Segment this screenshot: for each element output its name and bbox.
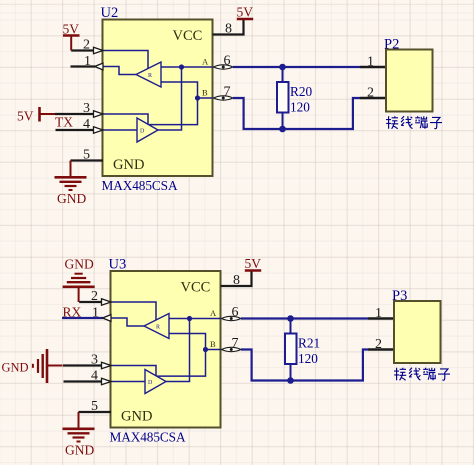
U3 part value label MAX485CSA — [110, 430, 186, 445]
U3 internal wire: pin4 to D input — [111, 381, 145, 383]
U3 internal wire: R input B / net B to pin 7 — [169, 334, 221, 350]
U3 pin 5 number — [91, 399, 98, 414]
svg-text:6: 6 — [232, 305, 239, 320]
svg-text:D: D — [148, 380, 153, 386]
svg-text:TX: TX — [55, 115, 73, 130]
U3 pin 2 (RE) with input arrow — [79, 299, 111, 305]
svg-text:7: 7 — [224, 85, 231, 100]
svg-text:5V: 5V — [63, 22, 80, 37]
svg-text:R20: R20 — [290, 84, 313, 99]
svg-text:8: 8 — [233, 273, 240, 288]
svg-text:VCC: VCC — [181, 280, 211, 296]
P3 pin 2 lead — [368, 348, 394, 350]
U2 pin name B (pin 7) — [202, 88, 208, 98]
power port 5V at U2 pin 3 — [17, 107, 55, 124]
svg-text:6: 6 — [224, 54, 231, 69]
svg-text:5: 5 — [91, 399, 98, 414]
wire R21 top lead — [290, 319, 292, 334]
U2 pin 6 (A) bidirectional pin symbol — [214, 65, 234, 69]
U3 pin 7 number — [232, 336, 239, 351]
U3 internal wire: D inverted output to net B — [157, 350, 206, 377]
U2 pin 4 (DI) with input arrow — [56, 127, 104, 133]
wire net A from pin6 to P2 — [233, 66, 360, 68]
svg-text:GND: GND — [57, 191, 86, 206]
U3 pin 2 number — [91, 289, 98, 304]
U2 internal junction on net B — [195, 95, 200, 100]
U3 pin 7 (B) bidirectional pin symbol — [222, 347, 242, 351]
connector P3 body — [394, 301, 441, 363]
svg-text:GND: GND — [65, 443, 94, 458]
resistor R21 120 — [285, 334, 297, 365]
svg-text:GND: GND — [2, 361, 29, 375]
U2 pin 1 (RO) with output arrow — [71, 63, 104, 70]
ground symbol GND above U3 pin 2 (inverted) — [63, 257, 95, 303]
svg-text:GND: GND — [113, 157, 144, 173]
U3 pin 4 (DI) with input arrow — [64, 378, 112, 384]
U2 pin 3 number — [83, 101, 90, 116]
U3 pin 3 number — [91, 353, 98, 368]
svg-text:1: 1 — [375, 306, 382, 321]
U2 internal wire: pin1 to R output — [103, 67, 136, 75]
U2 pin 6 number — [224, 54, 231, 69]
power port 5V at U3 pin 8 — [245, 256, 262, 271]
U3 pin name VCC — [181, 280, 211, 296]
U3 internal junction on net B — [203, 347, 208, 352]
driver buffer D inside U3 — [145, 370, 166, 394]
P2 value label (terminal block) — [386, 116, 442, 129]
U3 pin 6 (A) bidirectional pin symbol — [222, 316, 242, 320]
U2 internal wire: pin4 to D input — [103, 129, 137, 131]
U3 pin 8 (VCC) wire to 5V — [221, 271, 252, 286]
R21 designator label — [298, 336, 320, 351]
P3 pin 1 lead — [368, 317, 394, 319]
U3 pin 4 number — [91, 369, 98, 384]
U2 pin 7 (B) bidirectional pin symbol — [214, 96, 234, 100]
svg-text:5V: 5V — [245, 256, 262, 271]
svg-text:2: 2 — [367, 86, 374, 101]
ground symbol GND at U2 pin 5 — [55, 161, 87, 207]
svg-text:VCC: VCC — [173, 28, 203, 44]
U3 pin 5 (GND) wire — [79, 411, 112, 413]
U2 pin 2 number — [83, 38, 90, 53]
svg-text:P2: P2 — [384, 37, 399, 53]
U2 pin 7 number — [224, 85, 231, 100]
junction on net A at R21 top — [287, 315, 294, 322]
svg-text:GND: GND — [65, 257, 94, 272]
svg-text:120: 120 — [290, 100, 310, 115]
R20 value label 120 — [290, 100, 310, 115]
P3 value label (terminal block) — [394, 368, 450, 381]
wire R20 top lead — [282, 67, 284, 82]
junction on net B at R21 bottom — [287, 377, 294, 384]
ground symbol GND left of U3 pin 3 (rotated) — [2, 349, 63, 383]
wire net B from pin7 to P3 — [241, 350, 368, 381]
U2 pin 8 (VCC) wire to 5V — [213, 20, 244, 35]
P2 pin 1 lead — [360, 66, 386, 68]
junction on net B at R20 bottom — [279, 126, 286, 133]
P2 designator label — [384, 37, 399, 53]
U2 internal wire: pin2 enable to R — [103, 51, 148, 69]
svg-text:3: 3 — [83, 101, 90, 116]
wire net B from pin7 to P2 — [233, 98, 360, 129]
svg-text:D: D — [140, 129, 145, 135]
svg-text:1: 1 — [84, 54, 91, 69]
U3 internal wire: D output to net A — [166, 319, 190, 382]
U3 pin name A (pin 6) — [210, 308, 217, 318]
IC U3 body MAX485CSA — [111, 271, 221, 428]
U2 pin 5 number — [83, 148, 90, 163]
svg-text:R21: R21 — [298, 336, 320, 351]
svg-text:5V: 5V — [237, 5, 254, 20]
svg-text:8: 8 — [225, 22, 232, 37]
P2 pin 2 lead — [360, 97, 386, 99]
U2 internal wire: D output to net A — [158, 67, 182, 130]
U2 pin 4 number — [83, 117, 90, 132]
net label RX on U3 pin 1 — [63, 305, 82, 320]
receiver buffer R inside U2 — [136, 62, 161, 87]
svg-text:U3: U3 — [109, 257, 127, 273]
svg-text:A: A — [210, 308, 217, 318]
U2 internal wire: R input B / net B to pin 7 — [161, 82, 213, 98]
U2 pin name VCC — [173, 28, 203, 44]
wire net A from pin6 to P3 — [241, 317, 368, 319]
svg-text:2: 2 — [83, 38, 90, 53]
svg-text:MAX485CSA: MAX485CSA — [102, 178, 178, 193]
P2 pin 2 number — [367, 86, 374, 101]
svg-text:5: 5 — [83, 148, 90, 163]
svg-text:P3: P3 — [392, 288, 407, 304]
U2 pin 2 (RE) with input arrow — [71, 47, 103, 53]
U2 internal junction on net A — [179, 64, 184, 69]
U3 pin name B (pin 7) — [210, 339, 216, 349]
R21 value label 120 — [298, 351, 318, 366]
U3 internal wire: R input / net A to pin 6 — [169, 318, 221, 320]
svg-text:U2: U2 — [101, 5, 119, 21]
svg-text:GND: GND — [121, 409, 152, 425]
net label TX on U2 pin 4 — [55, 115, 73, 130]
svg-text:1: 1 — [92, 306, 99, 321]
svg-text:R: R — [156, 325, 160, 331]
P3 pin 2 number — [375, 337, 382, 352]
power port 5V at U2 pin 2 — [63, 22, 80, 51]
svg-text:2: 2 — [91, 289, 98, 304]
U2 pin 3 (DE) with input arrow — [55, 111, 103, 117]
U3 internal wire: pin3 enable to D — [111, 366, 156, 376]
svg-text:B: B — [210, 339, 216, 349]
svg-text:MAX485CSA: MAX485CSA — [110, 430, 186, 445]
svg-text:B: B — [202, 88, 208, 98]
svg-text:5V: 5V — [17, 109, 34, 124]
resistor R20 120 — [277, 82, 289, 113]
U2 pin name GND — [113, 157, 144, 173]
svg-text:3: 3 — [91, 353, 98, 368]
svg-text:A: A — [202, 57, 209, 67]
connector P2 body — [386, 50, 433, 112]
U3 pin 3 (DE) with input arrow — [63, 362, 111, 368]
driver buffer D inside U2 — [137, 118, 158, 142]
U2 designator label — [101, 5, 119, 21]
U3 pin 6 number — [232, 305, 239, 320]
P3 pin 1 number — [375, 306, 382, 321]
svg-text:4: 4 — [83, 117, 90, 132]
wire R21 bottom lead — [290, 364, 292, 381]
svg-text:120: 120 — [298, 351, 318, 366]
U3 pin 1 number — [92, 306, 99, 321]
R20 designator label — [290, 84, 313, 99]
receiver buffer R inside U3 — [144, 314, 169, 339]
svg-text:2: 2 — [375, 337, 382, 352]
U2 internal wire: R input / net A to pin 6 — [161, 66, 213, 68]
ground symbol GND at U3 pin 5 — [63, 412, 95, 458]
svg-text:RX: RX — [63, 305, 82, 320]
U3 pin 8 number — [233, 273, 240, 288]
junction on net A at R20 top — [279, 64, 286, 71]
IC U2 body MAX485CSA — [103, 20, 213, 177]
svg-text:1: 1 — [367, 55, 374, 70]
P3 designator label — [392, 288, 407, 304]
wire R20 bottom lead — [282, 113, 284, 130]
U2 internal wire: D inverted output to net B — [149, 98, 198, 125]
U2 pin 1 number — [84, 54, 91, 69]
U3 pin 1 (RO) with output arrow — [62, 315, 111, 322]
U2 pin name A (pin 6) — [202, 57, 209, 67]
U3 designator label — [109, 257, 127, 273]
U3 pin name GND — [121, 409, 152, 425]
U2 part value label MAX485CSA — [102, 178, 178, 193]
U3 internal junction on net A — [187, 316, 192, 321]
P2 pin 1 number — [367, 55, 374, 70]
svg-text:R: R — [148, 73, 152, 79]
power port 5V at U2 pin 8 — [237, 5, 254, 20]
U3 internal wire: pin2 enable to R — [111, 302, 156, 320]
U2 pin 5 (GND) wire — [71, 159, 104, 161]
U2 pin 8 number — [225, 22, 232, 37]
svg-text:4: 4 — [91, 369, 98, 384]
svg-text:7: 7 — [232, 336, 239, 351]
U3 internal wire: pin1 to R output — [111, 318, 144, 326]
U2 internal wire: pin3 enable to D — [103, 114, 148, 124]
